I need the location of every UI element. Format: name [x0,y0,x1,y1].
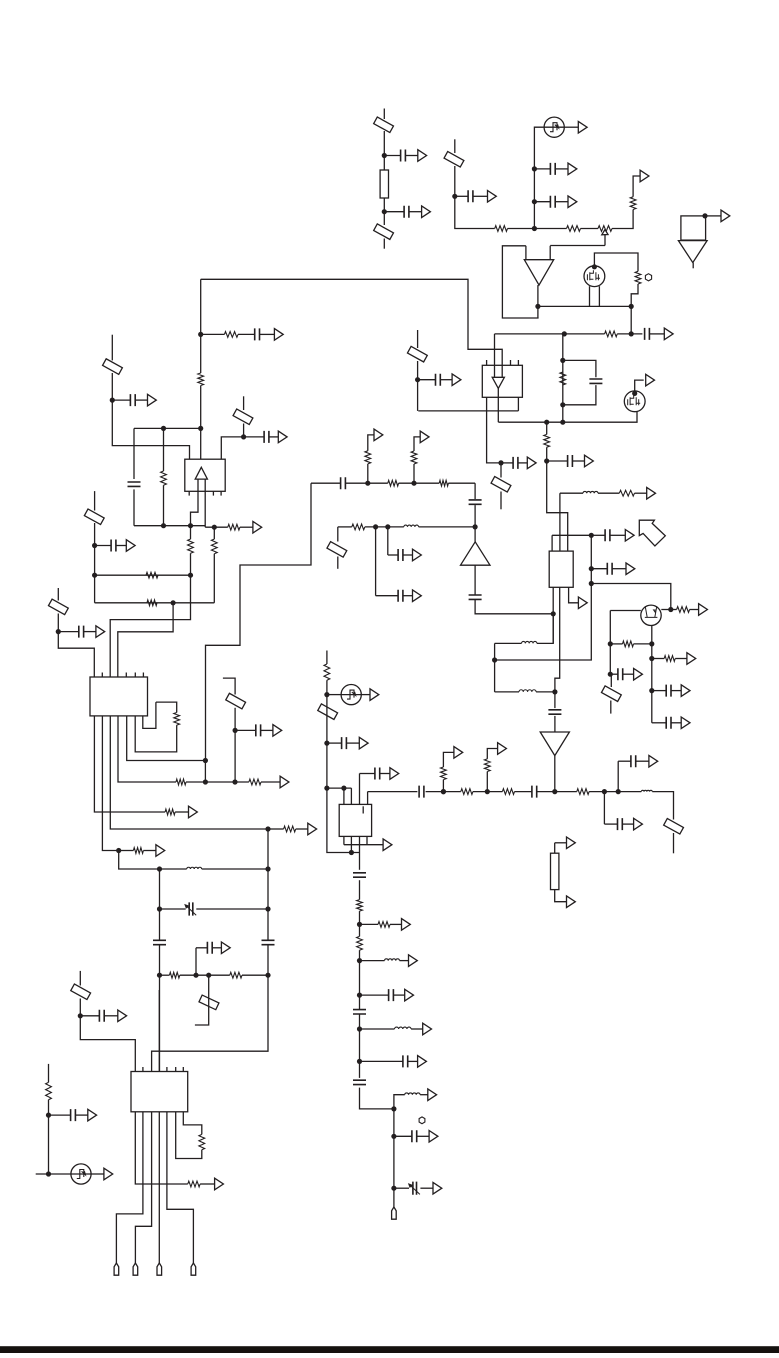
wire [383,198,385,225]
node [385,524,390,529]
wire pin [350,836,352,852]
capacitor C13 [469,500,482,504]
port arrow [104,1168,113,1180]
wire [555,842,567,844]
wire row D [311,482,341,484]
wire [413,464,415,483]
capacitor C40 [389,989,394,1001]
wire stub [383,239,385,249]
node [411,481,416,486]
node [157,866,162,871]
wire [213,527,215,539]
wire [418,410,518,412]
inductor L14 (tilted) [84,509,104,525]
capacitor C18 [666,685,671,697]
wire [133,428,135,479]
capacitor C33 [342,737,347,749]
wire [160,908,186,910]
wire stub [48,1064,50,1083]
capacitor C25 lead [95,545,112,547]
node [668,607,673,612]
node [232,779,237,784]
wire stub [454,139,456,153]
node [560,358,565,363]
wire U2 out [487,397,499,463]
wire [473,791,503,793]
IC U7 box [339,804,371,836]
wire [560,492,583,494]
amplifier U4 triangle [195,467,207,479]
wire stub [337,557,339,569]
port arrow [687,653,696,665]
capacitor C19 [666,717,671,729]
node [78,1013,83,1018]
wire [367,464,369,483]
capacitor C4 [550,163,555,175]
capacitor C30 lead2 [212,947,221,949]
wire stub [111,335,113,361]
capacitor C38 lead2 [636,760,649,762]
wire [603,792,605,825]
wire [368,435,374,451]
node [562,331,567,336]
port arrow [409,955,418,967]
inductor L10 [519,690,536,692]
capacitor C15 [398,590,403,602]
inductor L7 [404,525,419,527]
capacitor C16 lead2 [403,554,413,556]
capacitor C31 port [118,1010,127,1022]
node [92,543,97,548]
wire [500,463,502,478]
wire hook [143,702,156,728]
capacitor C15 lead2 [403,595,413,597]
wire [631,284,638,334]
resistor R18 [228,524,240,530]
resistor R45 [439,480,448,486]
resistor R2 [495,226,508,232]
resistor R35 [461,789,473,795]
port arrow [374,429,383,441]
node [265,826,270,831]
wire [359,836,361,852]
capacitor C14 [469,595,482,599]
node [608,641,613,646]
port arrow [189,806,198,818]
pin tick [182,1067,184,1072]
wire [487,749,497,759]
wire [133,489,135,525]
resistor R44 [388,480,399,486]
wire [267,829,269,940]
wire Q1 leg [598,286,600,306]
node [441,789,446,794]
capacitor C25 [111,540,116,552]
node [602,789,607,794]
inductor L19 (tilted) [71,984,91,1000]
resistor R32 [188,1181,200,1187]
wire [180,974,230,976]
capacitor C23 lead [112,399,130,401]
capacitor C1 lead2 [405,155,417,157]
capacitor C3 [468,190,473,202]
wire [365,526,404,528]
node [171,600,176,605]
wire [135,1112,151,1263]
node [616,789,621,794]
inductor L23 [385,959,400,961]
inductor L21 [641,790,652,791]
node [544,458,549,463]
wire [127,716,206,761]
wire [360,1028,395,1030]
amplifier A3 [540,732,569,756]
capacitor C44 lead2 [417,1135,429,1137]
resistor R15 [224,332,238,338]
node [265,906,270,911]
node [265,866,270,871]
capacitor C27 port [273,725,282,737]
wire [175,811,188,813]
inductor L17 (tilted) [226,693,246,709]
resistor R38 [441,767,447,780]
hex pad [645,274,651,281]
capacitor C26 lead2 [84,631,96,633]
wire [102,716,118,851]
capacitor C42 lead [360,1060,403,1062]
IC U6 box [131,1072,188,1112]
wire [359,950,361,1009]
wire [515,791,532,793]
transistor Q3 [641,605,661,625]
wire [534,127,544,228]
wire U2 pin2 [497,388,499,422]
wire [238,333,255,335]
port arrow [253,521,262,533]
port arrow [433,1182,442,1194]
resistor R19 [188,539,194,553]
resistor R33 [46,1082,52,1099]
wire post [549,246,551,260]
node [203,779,208,784]
wire [555,890,567,902]
resistor R11 [352,524,365,530]
capacitor C30 lead [196,947,207,949]
capacitor C15 port [413,590,422,602]
inductor L4 (tilted) [407,346,427,362]
wire [554,692,556,708]
node [589,533,594,538]
capacitor C44 [412,1130,417,1142]
node [544,420,549,425]
wire [261,781,280,783]
amplifier U4 box [185,459,225,491]
node [492,657,497,662]
wire stub [94,491,96,510]
trimmer capacitor CT1 [189,902,193,915]
wire stub [610,701,612,714]
pin tick [125,673,127,678]
pin tick [142,1067,144,1072]
capacitor C11 lead2 [610,534,625,536]
capacitor C26 port [96,626,105,638]
wire [375,527,377,596]
wire [80,999,135,1072]
reference symbol triangle [678,241,707,263]
capacitor C19 lead [652,722,666,724]
capacitor C21 [255,328,260,340]
wire [338,526,352,528]
capacitor C32 [71,1109,76,1121]
node [629,331,634,336]
port arrow [274,329,283,341]
node [532,199,537,204]
capacitor C20 lead [610,673,618,675]
buffer U2 triangle [492,377,504,388]
node [532,226,537,231]
wire [327,694,341,696]
capacitor C20 lead2 [623,673,634,675]
pin tick [166,1067,168,1072]
capacitor C2 lead [384,211,404,213]
wire [635,492,647,494]
resistor R1 (box) [380,170,388,198]
wire [419,526,476,528]
capacitor C26 lead [58,631,79,633]
wire [617,333,642,335]
long wire net [206,483,312,760]
capacitor C12 [607,563,612,575]
wire [474,565,476,595]
node [110,398,115,403]
wire [186,781,249,783]
wire pin [343,836,345,844]
wire [475,600,553,614]
wire [565,126,579,128]
resistor R8 [560,372,566,385]
wire cap branch [563,385,596,405]
resistor R16 [198,373,204,386]
resistor R9 [544,434,550,447]
capacitor C7 lead2 [440,379,452,381]
wire [675,658,687,660]
wire [190,526,192,539]
resistor R27 [284,826,296,832]
wire [554,756,556,792]
wire Q1 leg [589,286,591,306]
capacitor C40 lead2 [393,994,404,996]
capacitor C27 [256,724,261,736]
wire U4 out2 [204,479,206,527]
source V2 [71,1164,91,1184]
port arrow [215,1178,224,1190]
wire stub [326,651,328,665]
trimmer capacitor CT1 arrow [187,906,196,915]
inductor L12 (tilted) [103,359,123,375]
capacitor C38 port [649,755,658,767]
inductor L1 (tilted) [374,117,394,133]
trimmer capacitor CT2 arrow [411,1186,420,1195]
wire hook [195,975,209,1025]
capacitor C23 [130,394,135,406]
wire stub [673,833,675,853]
inductor L24 [395,1027,412,1029]
node [552,689,557,694]
wire [159,945,161,1072]
wire [296,828,308,830]
wire [486,772,488,792]
wire bus [158,990,160,1072]
port arrow [567,896,576,908]
node [373,524,378,529]
node [391,1186,396,1191]
node [188,573,193,578]
capacitor C36 [532,786,537,798]
resistor R28 [133,848,143,854]
resistor R6 [635,271,641,284]
capacitor C37 [618,818,623,830]
wire [359,911,361,936]
capacitor C34 lead [360,773,375,775]
wire [559,493,561,551]
capacitor C34 port [390,768,399,780]
inductor L13 (tilted) [233,409,253,425]
wire post [525,246,527,260]
wire [537,285,539,318]
pin tick [517,360,519,365]
capacitor C30 [207,942,212,954]
node [46,1171,51,1176]
node [157,906,162,911]
wire stub [223,678,235,694]
wire [242,974,268,976]
resistor R31 [199,1134,205,1149]
wire [400,960,409,962]
node [157,973,162,978]
wire Q1 drain [594,253,638,271]
pin tick [510,360,512,365]
wire [581,228,599,230]
box U3 [549,551,573,587]
node [391,1134,396,1139]
capacitor C37 port [634,818,643,830]
resistor R29 [169,972,179,978]
potentiometer R4 [598,226,612,232]
wire [690,609,699,611]
wire [652,658,664,660]
capacitor C34 lead2 [380,773,390,775]
wire [163,485,165,526]
long wire net [201,279,503,365]
source V1 [544,117,564,137]
port arrow [428,1089,437,1101]
node [212,525,217,530]
wire [474,483,476,499]
wire [617,761,619,791]
port arrow [647,487,656,499]
wire [159,869,161,940]
node [161,523,166,528]
wire [213,554,215,603]
wire [562,334,564,422]
node [632,391,637,396]
wire [260,333,275,335]
wire [240,526,253,528]
wire Q3 collector [661,609,671,611]
wire [390,923,402,925]
port arrow [664,328,673,340]
wire [221,437,243,459]
wire [651,644,653,723]
capacitor C3 lead2 [473,195,488,197]
node [46,1113,51,1118]
capacitor C44 port [429,1131,438,1143]
op-amp U1 [524,260,553,285]
capacitor C10 lead2 [572,460,584,462]
wire [609,611,611,675]
node [357,1026,362,1031]
inductor L22 (tilted) [664,819,684,835]
capacitor C1 [401,150,406,162]
node [532,166,537,171]
capacitor C15 lead [376,595,399,597]
wire [547,447,568,551]
wire [243,424,245,437]
inductor L15 (tilted) [48,599,68,615]
node [552,789,557,794]
port arrow [699,604,708,616]
wire [160,868,187,870]
wire [610,643,622,645]
capacitor C2 lead2 [409,211,422,213]
resistor R43 [357,936,363,950]
inductor L20 (tilted) [318,704,338,720]
wire [112,373,189,459]
wire [143,850,156,852]
capacitor C7 port [452,374,461,386]
capacitor C35 [419,786,424,798]
source V3 [341,685,361,705]
wire [91,1173,104,1175]
wire [110,716,268,829]
capacitor C33 lead2 [346,742,359,744]
op-amp U1 feedback wall wire [502,246,538,318]
capacitor C5 [550,196,555,208]
resistor R25 [249,779,261,785]
wire [612,210,633,229]
capacitor C12 port [626,563,635,575]
wire [649,333,664,335]
capacitor C33 port [359,737,368,749]
wire [360,923,379,925]
capacitor C19 lead2 [671,722,681,724]
port arrow [370,689,379,701]
wire [118,716,176,782]
node [341,786,346,791]
wire [554,843,556,853]
capacitor C18 lead [652,690,666,692]
wire [344,844,383,846]
inductor L2 (tilted) [374,224,394,240]
wire [610,674,612,687]
capacitor C32 lead2 [75,1114,87,1116]
node [365,481,370,486]
resistor R39 [484,759,490,772]
wire [671,609,677,611]
capacitor C23 port [148,394,157,406]
resistor R13 [623,641,634,647]
terminal pin P3 [157,1263,162,1275]
